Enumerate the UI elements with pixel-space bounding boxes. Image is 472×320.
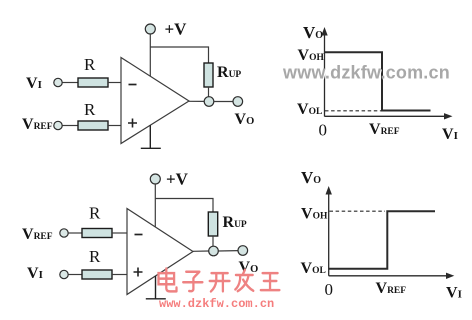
wire +V branch to RUP (150, 47, 208, 63)
watermark gray www.dzkfw.com.cn (282, 63, 451, 84)
dashed VOL level top graph (325, 110, 381, 112)
terminal VREF bottom (60, 229, 68, 237)
wire VREF to R3 (69, 232, 83, 234)
ground (141, 125, 161, 148)
resistor R1 (78, 78, 108, 87)
terminal VREF (54, 121, 62, 129)
wire +V branch to RUP bottom (155, 199, 213, 213)
terminal Vo bottom (238, 246, 248, 256)
wire +V to op-amp bottom (154, 184, 156, 227)
pin minus U2 (135, 234, 143, 236)
op-amp U2 (127, 209, 193, 295)
pin minus U1 (129, 84, 137, 86)
y-axis top graph (324, 33, 326, 117)
resistor RUP (204, 63, 213, 87)
wire VI to R1 (63, 82, 79, 84)
wire VI to R4 (69, 274, 83, 276)
wire R2 to non-inverting input (108, 125, 122, 127)
wire op-amp output (189, 100, 204, 102)
svg-text:www.dzkfw.com.cn: www.dzkfw.com.cn (282, 63, 450, 83)
ground bottom (146, 276, 166, 299)
x-axis top graph (325, 115, 447, 117)
svg-text:R: R (84, 100, 96, 119)
svg-text:0: 0 (325, 280, 334, 299)
dashed VOH level bottom graph (330, 210, 386, 212)
svg-text:+V: +V (166, 170, 189, 189)
x-axis bottom graph (329, 275, 448, 277)
wire op-amp output bottom (193, 250, 209, 252)
svg-text:0: 0 (319, 121, 328, 140)
wire R3 to inverting input bottom (112, 232, 128, 234)
pin plus U1 (128, 119, 137, 128)
curve transfer top graph (325, 52, 431, 110)
wire RUP to output node bottom (212, 236, 214, 246)
svg-text:R: R (89, 204, 101, 223)
resistor R3 (82, 229, 112, 238)
terminal VI bottom (60, 270, 68, 278)
junction output node (204, 97, 214, 107)
resistor RUP bottom (208, 212, 217, 236)
svg-text:+V: +V (165, 20, 188, 39)
watermark red chinese 电子开发王 (159, 269, 280, 292)
svg-text:www.dzkfw.com.cn: www.dzkfw.com.cn (159, 297, 274, 311)
svg-text:R: R (89, 247, 101, 266)
wire R1 to inverting input (108, 82, 122, 84)
terminal +V supply bottom (150, 174, 160, 184)
y-axis bottom graph (328, 192, 330, 276)
terminal VI (54, 78, 62, 86)
curve transfer bottom graph (329, 211, 435, 269)
op-amp U1 (121, 58, 189, 144)
terminal Vo (233, 97, 243, 107)
resistor R4 (82, 270, 112, 279)
junction output node bottom (209, 246, 219, 256)
wire node to Vo bottom (218, 250, 238, 252)
wire VREF to R2 (63, 125, 79, 127)
terminal +V supply (145, 24, 155, 34)
wire R4 to non-inverting input bottom (112, 274, 128, 276)
wire +V to op-amp (149, 34, 151, 76)
pin plus U2 (134, 268, 143, 277)
resistor R2 (78, 121, 108, 130)
wire node to Vo (214, 101, 233, 103)
wire RUP to output node (208, 87, 210, 97)
svg-text:R: R (84, 55, 96, 74)
